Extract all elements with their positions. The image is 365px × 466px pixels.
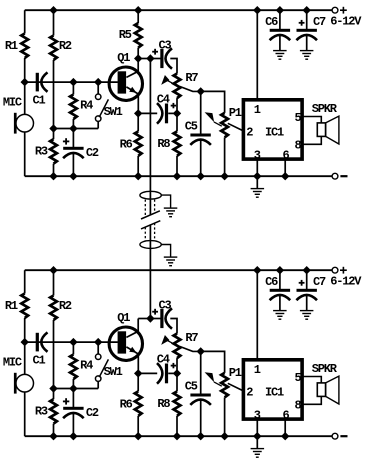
svg-text:R7: R7 bbox=[185, 71, 198, 85]
node C7 rail junction (bottom station) bbox=[303, 266, 311, 274]
transistor Q1 body (bottom station) bbox=[109, 327, 142, 360]
wire wiper node to P1 (top station) bbox=[201, 91, 225, 113]
trimmer R7 arrow (top station) bbox=[161, 75, 169, 85]
node R2 top rail junction (bottom station) bbox=[49, 266, 57, 274]
capacitor C1 (top station) bbox=[36, 73, 39, 92]
wire C2 top lead (bottom station) bbox=[72, 389, 74, 408]
node C2 ground junction (bottom station) bbox=[69, 432, 77, 440]
svg-text:R8: R8 bbox=[157, 137, 170, 151]
wire R7 wiper (top station) bbox=[180, 87, 201, 92]
capacitor C3 (bottom station) bbox=[160, 309, 163, 328]
wire R2 top lead (top station) bbox=[53, 10, 55, 35]
resistor R3 (bottom station) bbox=[50, 399, 57, 424]
node P1 ground junction (top station) bbox=[220, 172, 228, 180]
cable shield opening bottom bbox=[140, 241, 161, 249]
resistor R6 (top station) bbox=[135, 131, 142, 156]
wire SW1 bottom lead (bottom station) bbox=[97, 381, 99, 388]
capacitor C2 (bottom station) bbox=[63, 407, 83, 410]
svg-text:C6: C6 bbox=[265, 15, 278, 29]
wire MIC to ground rail (bottom station) bbox=[24, 392, 26, 436]
cable shield dashed left upper bbox=[144, 200, 146, 217]
capacitor C5 (bottom station) bbox=[190, 394, 210, 397]
node pin 6 rail junction (top station) bbox=[281, 172, 289, 180]
wire R3 bottom lead (top station) bbox=[53, 164, 55, 177]
svg-text:C5: C5 bbox=[185, 120, 198, 134]
svg-text:SPKR: SPKR bbox=[312, 102, 338, 116]
node line tap junction (top station) bbox=[146, 54, 154, 62]
wire C5 top lead (bottom station) bbox=[200, 351, 202, 393]
terminal negative supply (top station) bbox=[332, 173, 338, 179]
cable break slash upper bbox=[141, 211, 160, 219]
svg-text:R1: R1 bbox=[5, 299, 18, 313]
ground cable shield bottom bbox=[161, 245, 170, 257]
wire R3 bottom lead (bottom station) bbox=[53, 424, 55, 437]
wire emitter lead (top station) bbox=[137, 94, 139, 114]
wire to C3 (top station) bbox=[150, 58, 160, 60]
svg-text:2: 2 bbox=[246, 126, 253, 140]
terminal positive supply (top station) bbox=[332, 7, 338, 13]
node C5 ground junction (top station) bbox=[197, 172, 205, 180]
potentiometer P1 arrow (bottom station) bbox=[205, 372, 215, 382]
wire R4 top lead (top station) bbox=[72, 82, 74, 94]
ground C6 (top station) bbox=[279, 36, 281, 51]
microphone MIC (top station) bbox=[16, 114, 34, 132]
wire R4 top lead (bottom station) bbox=[72, 342, 74, 354]
ground C6 (bottom station) bbox=[279, 296, 281, 311]
node SW1 top junction (bottom station) bbox=[94, 338, 102, 346]
wire bottom ground rail (top station) bbox=[25, 175, 332, 177]
resistor R1 (top station) bbox=[21, 34, 28, 59]
svg-text:C2: C2 bbox=[86, 406, 99, 420]
node R6 ground junction (bottom station) bbox=[134, 432, 142, 440]
wire R7 to C4 (bottom station) bbox=[176, 358, 178, 373]
minus mark supply terminal (bottom station) bbox=[340, 435, 347, 437]
node SW1 top junction (top station) bbox=[94, 78, 102, 86]
wire C3 to R7 (top station) bbox=[170, 59, 177, 74]
cable shield dashed right lower bbox=[154, 223, 156, 241]
wire P1 bottom lead (bottom station) bbox=[224, 397, 226, 436]
wire C6 top lead (bottom station) bbox=[279, 270, 281, 289]
wire top supply rail (bottom station) bbox=[25, 269, 332, 271]
svg-text:C3: C3 bbox=[159, 39, 172, 53]
op-amp IC1 (bottom station) bbox=[243, 360, 302, 419]
node R4/C2 junction (top station) bbox=[69, 124, 77, 132]
wire Q1 collector (bottom station) bbox=[126, 319, 138, 338]
trimmer R7 (bottom station) bbox=[174, 334, 181, 359]
svg-text:1: 1 bbox=[254, 103, 261, 117]
svg-text:Q1: Q1 bbox=[117, 311, 130, 325]
wire R6 bottom lead (bottom station) bbox=[137, 416, 139, 436]
wire R8 bottom lead (top station) bbox=[176, 156, 178, 176]
wire C3 to R7 (bottom station) bbox=[170, 319, 177, 334]
wire R6 top lead (bottom station) bbox=[137, 373, 139, 391]
resistor R4 (bottom station) bbox=[70, 355, 77, 380]
node R4 top junction (top station) bbox=[69, 78, 77, 86]
svg-text:C3: C3 bbox=[159, 299, 172, 313]
wire P1 bottom lead (top station) bbox=[224, 137, 226, 176]
svg-text:SW1: SW1 bbox=[104, 365, 123, 379]
wire collector to line tap (bottom station) bbox=[138, 318, 150, 320]
wire pin 6 to ground (bottom station) bbox=[284, 419, 286, 436]
wire screened cable core upper bbox=[149, 59, 151, 215]
trimmer R7 arrow (bottom station) bbox=[161, 335, 169, 345]
wire pin 5 to speaker (bottom station) bbox=[302, 377, 321, 383]
node P1 ground junction (bottom station) bbox=[220, 432, 228, 440]
svg-text:R8: R8 bbox=[157, 397, 170, 411]
node R5 top rail junction (top station) bbox=[134, 6, 142, 14]
wire base row (top station) bbox=[25, 81, 118, 83]
svg-text:IC1: IC1 bbox=[265, 126, 284, 140]
wire pin 6 to ground (top station) bbox=[284, 159, 286, 176]
wire Q1 emitter (top station) bbox=[126, 87, 138, 94]
svg-text:SPKR: SPKR bbox=[312, 362, 338, 376]
wire to C3 (bottom station) bbox=[150, 318, 160, 320]
switch SW1 lever (top station) bbox=[99, 99, 108, 117]
svg-text:C1: C1 bbox=[33, 354, 46, 368]
wire bottom ground rail (bottom station) bbox=[25, 435, 332, 437]
wire pin 1 to supply (top station) bbox=[256, 10, 258, 100]
wire R2 to R3 (top station) bbox=[53, 60, 55, 139]
svg-text:5: 5 bbox=[294, 371, 301, 385]
resistor R4 (top station) bbox=[70, 95, 77, 120]
wire SW1 top lead (bottom station) bbox=[97, 342, 99, 354]
wire emitter to C4 (bottom station) bbox=[138, 372, 157, 374]
transistor Q1 body (top station) bbox=[109, 67, 142, 100]
node pin 3 rail junction (bottom station) bbox=[253, 432, 261, 440]
svg-text:C1: C1 bbox=[33, 94, 46, 108]
svg-text:C2: C2 bbox=[86, 146, 99, 160]
node emitter junction (bottom station) bbox=[134, 369, 142, 377]
capacitor C6 (top station) bbox=[270, 29, 290, 32]
wire C5 bottom lead (top station) bbox=[200, 140, 202, 176]
wire R1 to MIC (bottom station) bbox=[24, 318, 26, 375]
capacitor C4 (bottom station) bbox=[157, 363, 162, 384]
wire screened cable core lower bbox=[149, 224, 151, 318]
cable shield dashed right upper bbox=[154, 200, 156, 213]
svg-text:R2: R2 bbox=[59, 299, 72, 313]
terminal positive supply (bottom station) bbox=[332, 267, 338, 273]
wire Q1 emitter (bottom station) bbox=[126, 347, 138, 354]
potentiometer P1 (bottom station) bbox=[221, 373, 228, 398]
plus mark supply terminal (bottom station) bbox=[340, 269, 347, 271]
plus mark C3 (bottom station) bbox=[152, 311, 158, 313]
wire P1 wiper to pin 2 (top station) bbox=[228, 123, 243, 130]
capacitor C4 (top station) bbox=[157, 103, 162, 124]
svg-text:R4: R4 bbox=[80, 359, 93, 373]
wire R2 top lead (bottom station) bbox=[53, 270, 55, 295]
capacitor C2 (top station) bbox=[63, 147, 83, 150]
switch SW1 contact top (top station) bbox=[95, 94, 101, 100]
wire C5 bottom lead (bottom station) bbox=[200, 400, 202, 436]
node C5 ground junction (bottom station) bbox=[197, 432, 205, 440]
svg-text:C4: C4 bbox=[157, 93, 170, 107]
svg-text:R3: R3 bbox=[35, 144, 48, 158]
capacitor C3 (top station) bbox=[160, 49, 163, 68]
wire SW1 bottom lead (top station) bbox=[97, 121, 99, 128]
node pin 6 rail junction (bottom station) bbox=[281, 432, 289, 440]
wire wiper node to P1 (bottom station) bbox=[201, 351, 225, 373]
node R2 top rail junction (top station) bbox=[49, 6, 57, 14]
plus mark supply terminal (top station) bbox=[340, 9, 347, 11]
node C6 rail junction (top station) bbox=[276, 6, 284, 14]
node emitter junction (top station) bbox=[134, 109, 142, 117]
svg-text:5: 5 bbox=[294, 111, 301, 125]
node C1/base junction (top station) bbox=[21, 78, 29, 86]
node R2/R3 junction (top station) bbox=[49, 124, 57, 132]
plus mark C2 (bottom station) bbox=[63, 401, 69, 403]
svg-text:MIC: MIC bbox=[3, 356, 22, 370]
node pin 1 rail junction (bottom station) bbox=[253, 266, 261, 274]
svg-text:6-12V: 6-12V bbox=[330, 15, 362, 29]
svg-text:P1: P1 bbox=[229, 366, 242, 380]
plus mark C7 (top station) bbox=[299, 22, 305, 24]
potentiometer P1 (top station) bbox=[221, 113, 228, 137]
wire R1 top lead (top station) bbox=[24, 10, 26, 33]
node line tap junction (bottom station) bbox=[146, 314, 154, 322]
wire R8 bottom lead (bottom station) bbox=[176, 416, 178, 436]
potentiometer P1 arrow (top station) bbox=[205, 112, 215, 122]
microphone MIC (bottom station) bbox=[16, 374, 34, 392]
svg-text:R1: R1 bbox=[5, 39, 18, 53]
node wiper junction (top station) bbox=[197, 87, 205, 95]
wire R6 bottom lead (top station) bbox=[137, 156, 139, 176]
svg-text:C5: C5 bbox=[185, 380, 198, 394]
wire R4 bottom lead (bottom station) bbox=[72, 379, 74, 389]
cable break slash lower bbox=[141, 221, 160, 229]
trimmer R7 (top station) bbox=[174, 74, 181, 99]
svg-text:MIC: MIC bbox=[3, 96, 22, 110]
svg-text:C6: C6 bbox=[265, 275, 278, 289]
transistor Q1 base bar (top station) bbox=[118, 71, 127, 93]
node R4 top junction (bottom station) bbox=[69, 338, 77, 346]
wire R7 wiper (bottom station) bbox=[180, 347, 201, 352]
wire collector to line tap (top station) bbox=[138, 58, 150, 60]
svg-text:IC1: IC1 bbox=[265, 386, 284, 400]
capacitor C1 (bottom station) bbox=[36, 333, 39, 352]
ground cable shield top bbox=[161, 195, 170, 208]
node C7 rail junction (top station) bbox=[303, 6, 311, 14]
switch SW1 lever (bottom station) bbox=[99, 359, 108, 377]
wire R5 top lead (top station) bbox=[137, 10, 139, 23]
svg-text:C7: C7 bbox=[313, 15, 326, 29]
wire R4 bottom lead (top station) bbox=[72, 119, 74, 129]
svg-text:P1: P1 bbox=[229, 106, 242, 120]
ground pin 3 (bottom station) bbox=[256, 436, 258, 448]
svg-text:C4: C4 bbox=[157, 353, 170, 367]
node C1/base junction (bottom station) bbox=[21, 338, 29, 346]
cable shield dashed left lower bbox=[144, 227, 146, 241]
wire R7 to C4 (top station) bbox=[176, 98, 178, 113]
capacitor C6 (bottom station) bbox=[270, 289, 290, 292]
wire R2 to R3 (bottom station) bbox=[53, 320, 55, 399]
node wiper junction (bottom station) bbox=[197, 347, 205, 355]
speaker SPKR (bottom station) bbox=[317, 383, 325, 397]
transistor Q1 base bar (bottom station) bbox=[118, 331, 127, 353]
switch SW1 contact top (bottom station) bbox=[95, 354, 101, 360]
resistor R8 (top station) bbox=[174, 131, 181, 156]
resistor R5 (top station) bbox=[135, 23, 142, 47]
wire emitter to C4 (top station) bbox=[138, 112, 157, 114]
wire C7 top lead (top station) bbox=[306, 10, 308, 29]
wire pin 1 to supply (bottom station) bbox=[256, 270, 258, 360]
wire C4 to R8 node (top station) bbox=[168, 112, 177, 114]
wire C4 to R8 node (bottom station) bbox=[168, 372, 177, 374]
capacitor C7 (top station) bbox=[297, 29, 317, 32]
svg-text:R3: R3 bbox=[35, 404, 48, 418]
plus mark C2 (top station) bbox=[63, 141, 69, 143]
svg-text:R4: R4 bbox=[80, 99, 93, 113]
node R2/R3 junction (bottom station) bbox=[49, 384, 57, 392]
node C6 rail junction (bottom station) bbox=[276, 266, 284, 274]
node R4/C2 junction (bottom station) bbox=[69, 384, 77, 392]
wire C2 bottom lead (top station) bbox=[72, 154, 74, 177]
wire R8 top lead (bottom station) bbox=[176, 373, 178, 391]
wire P1 wiper to pin 2 (bottom station) bbox=[228, 383, 243, 390]
svg-text:2: 2 bbox=[246, 386, 253, 400]
wire R1 top lead (bottom station) bbox=[24, 270, 26, 293]
capacitor C7 (bottom station) bbox=[297, 289, 317, 292]
wire C5 top lead (top station) bbox=[200, 91, 202, 133]
svg-text:R6: R6 bbox=[120, 137, 133, 151]
svg-text:1: 1 bbox=[254, 363, 261, 377]
node R3 ground junction (bottom station) bbox=[49, 432, 57, 440]
wire pin 8 to speaker (bottom station) bbox=[302, 396, 321, 404]
op-amp IC1 (top station) bbox=[243, 100, 302, 159]
svg-text:R5: R5 bbox=[119, 28, 132, 42]
node collector junction (top station) bbox=[134, 54, 142, 62]
ground C7 (top station) bbox=[306, 36, 308, 51]
wire pin 3 to ground (top station) bbox=[256, 159, 258, 176]
node R6 ground junction (top station) bbox=[134, 172, 142, 180]
node C4/R8 junction (top station) bbox=[173, 109, 181, 117]
node R3 ground junction (top station) bbox=[49, 172, 57, 180]
resistor R8 (bottom station) bbox=[174, 391, 181, 416]
wire C7 top lead (bottom station) bbox=[306, 270, 308, 289]
capacitor C5 (top station) bbox=[190, 134, 210, 137]
wire R8 top lead (top station) bbox=[176, 113, 178, 131]
switch SW1 contact bottom (bottom station) bbox=[95, 376, 101, 382]
svg-text:8: 8 bbox=[294, 138, 301, 152]
wire pin 5 to speaker (top station) bbox=[302, 117, 321, 123]
wire MIC to ground rail (top station) bbox=[24, 132, 26, 176]
cable shield opening top bbox=[140, 191, 161, 199]
svg-text:C7: C7 bbox=[313, 275, 326, 289]
wire R1 to MIC (top station) bbox=[24, 58, 26, 115]
resistor R6 (bottom station) bbox=[135, 391, 142, 416]
plus mark C4 (bottom station) bbox=[171, 365, 176, 367]
wire node row (top station) bbox=[54, 128, 99, 130]
wire SW1 top lead (top station) bbox=[97, 82, 99, 94]
resistor R1 (bottom station) bbox=[21, 294, 28, 319]
svg-text:8: 8 bbox=[294, 398, 301, 412]
node pin 1 rail junction (top station) bbox=[253, 6, 261, 14]
wire C2 top lead (top station) bbox=[72, 129, 74, 148]
wire emitter lead (bottom station) bbox=[137, 354, 139, 374]
node R8 ground junction (top station) bbox=[173, 172, 181, 180]
svg-text:R2: R2 bbox=[59, 39, 72, 53]
wire pin 8 to speaker (top station) bbox=[302, 136, 321, 144]
node C4/R8 junction (bottom station) bbox=[173, 369, 181, 377]
plus mark C3 (top station) bbox=[152, 51, 158, 53]
wire pin 3 to ground (bottom station) bbox=[256, 419, 258, 436]
svg-text:R7: R7 bbox=[185, 331, 198, 345]
switch SW1 contact bottom (top station) bbox=[95, 116, 101, 122]
speaker SPKR (top station) bbox=[317, 123, 325, 136]
wire node row (bottom station) bbox=[54, 388, 99, 390]
wire R5 bottom lead (top station) bbox=[137, 48, 139, 59]
svg-text:SW1: SW1 bbox=[104, 105, 123, 119]
plus mark C7 (bottom station) bbox=[299, 282, 305, 284]
wire C6 top lead (top station) bbox=[279, 10, 281, 29]
ground C7 (bottom station) bbox=[306, 296, 308, 311]
wire C2 bottom lead (bottom station) bbox=[72, 414, 74, 437]
svg-text:Q1: Q1 bbox=[117, 51, 130, 65]
node pin 3 rail junction (top station) bbox=[253, 172, 261, 180]
node C2 ground junction (top station) bbox=[69, 172, 77, 180]
wire base row (bottom station) bbox=[25, 341, 118, 343]
wire top supply rail (top station) bbox=[25, 9, 332, 11]
wire Q1 collector (top station) bbox=[126, 59, 138, 78]
ground pin 3 (top station) bbox=[256, 176, 258, 188]
svg-text:6-12V: 6-12V bbox=[330, 275, 362, 289]
minus mark supply terminal (top station) bbox=[340, 175, 347, 177]
plus mark C4 (top station) bbox=[171, 105, 176, 107]
terminal negative supply (bottom station) bbox=[332, 433, 338, 439]
resistor R2 (top station) bbox=[50, 36, 57, 61]
wire R6 top lead (top station) bbox=[137, 113, 139, 131]
svg-text:R6: R6 bbox=[120, 397, 133, 411]
resistor R2 (bottom station) bbox=[50, 296, 57, 321]
resistor R3 (top station) bbox=[50, 139, 57, 164]
node R8 ground junction (bottom station) bbox=[173, 432, 181, 440]
